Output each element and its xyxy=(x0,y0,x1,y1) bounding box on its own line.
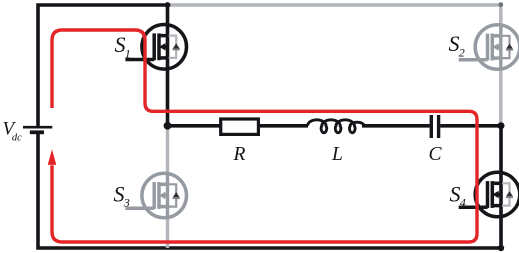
node right mid junction xyxy=(498,122,505,129)
node top-right gray junction xyxy=(498,2,503,7)
wire S1 drain/source vertical (top bus to mid junction) xyxy=(166,5,170,126)
wire resistor to inductor xyxy=(257,124,308,128)
wire S4 vertical (mid-right junction to bottom bus) xyxy=(499,126,503,248)
svg-text:C: C xyxy=(429,144,443,165)
wire gray S2 through line xyxy=(499,25,502,70)
wire mid branch: junction to resistor xyxy=(168,124,222,128)
node left mid junction xyxy=(164,122,172,130)
node bottom right junction xyxy=(498,245,504,251)
red current arrow xyxy=(48,149,57,165)
wire left bus top (battery top to top-left corner) xyxy=(38,5,168,127)
capacitor C left plate xyxy=(430,115,433,138)
wire red current path loop xyxy=(52,30,477,242)
node top junction xyxy=(165,2,171,8)
transistor S4 (MOSFET, on) xyxy=(459,172,519,217)
wire gray S3 to bottom bus xyxy=(166,218,169,248)
wire gray below left mid junction to S3 xyxy=(166,126,169,173)
transistor S2 (MOSFET, off, gray) xyxy=(459,25,519,70)
capacitor C right plate xyxy=(437,115,440,138)
wire capacitor to right junction xyxy=(440,124,501,128)
transistor S3 (MOSFET, off, gray) xyxy=(125,173,186,218)
wire gray S3 through line xyxy=(166,173,169,218)
wire top bus gray segment (to S2) xyxy=(168,5,501,25)
wire gray S2 source to mid-right junction xyxy=(499,70,502,126)
wire inductor to capacitor xyxy=(362,124,430,128)
svg-text:L: L xyxy=(331,144,343,165)
resistor R xyxy=(221,119,259,134)
battery Vdc short plate xyxy=(30,130,44,134)
svg-text:R: R xyxy=(233,144,246,165)
inductor L xyxy=(308,120,364,133)
transistor S1 (MOSFET, on) xyxy=(125,25,186,70)
battery Vdc long plate xyxy=(23,126,52,129)
wire left bus bottom and bottom bus xyxy=(38,132,501,248)
